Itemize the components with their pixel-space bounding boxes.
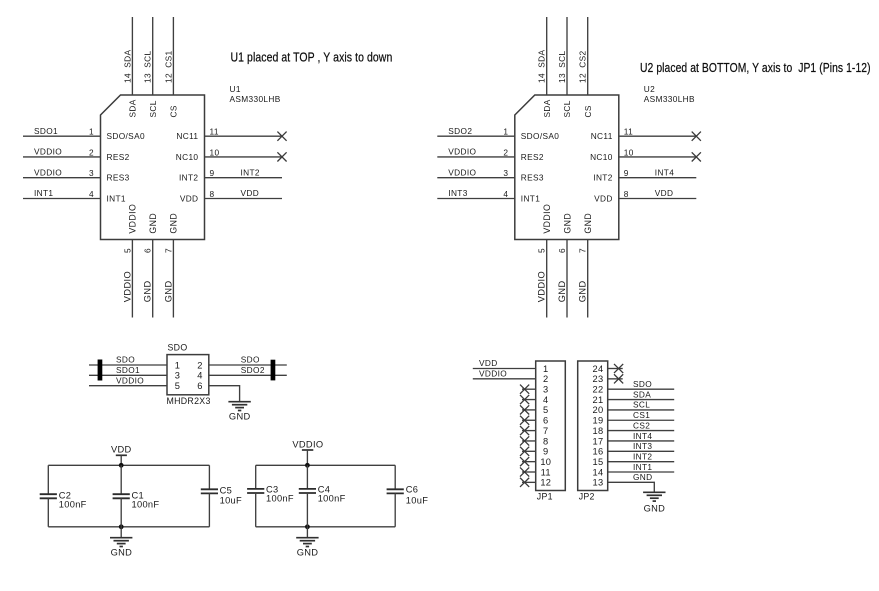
svg-text:3: 3	[543, 385, 548, 395]
svg-text:100nF: 100nF	[266, 494, 294, 504]
svg-text:4: 4	[503, 189, 508, 199]
wire C2 top lead	[47, 465, 49, 494]
svg-text:VDDIO: VDDIO	[479, 368, 507, 378]
svg-text:6: 6	[143, 248, 153, 253]
svg-text:6: 6	[557, 248, 567, 253]
svg-text:10: 10	[624, 147, 634, 157]
junction dot	[305, 524, 310, 529]
wire C6 bottom lead	[394, 493, 396, 526]
capacitor C1	[113, 494, 130, 498]
no-connect X on JP1 pin 11	[520, 467, 529, 476]
svg-text:SCL: SCL	[148, 100, 158, 117]
svg-text:CS2: CS2	[578, 50, 588, 67]
svg-text:SDO1: SDO1	[116, 365, 140, 375]
svg-text:GND: GND	[578, 280, 588, 302]
U1 pin 7 wire	[172, 240, 174, 318]
svg-text:GND: GND	[229, 411, 251, 421]
svg-text:GND: GND	[644, 503, 666, 513]
svg-text:8: 8	[624, 189, 629, 199]
wire C2 bottom lead	[47, 498, 49, 527]
svg-text:VDD: VDD	[594, 193, 613, 203]
MHDR2X3 pin 1 wire	[89, 364, 167, 366]
svg-text:VDDIO: VDDIO	[34, 147, 62, 157]
U2 pin 11 wire	[619, 135, 697, 137]
svg-text:VDDIO: VDDIO	[34, 167, 62, 177]
svg-text:GND: GND	[143, 280, 153, 302]
svg-text:SDA: SDA	[633, 389, 651, 399]
U2 pin 14 wire	[546, 17, 548, 95]
JP2 pin 20 wire	[608, 409, 675, 411]
svg-text:GND: GND	[633, 472, 653, 482]
svg-text:SDA: SDA	[128, 99, 138, 117]
svg-text:U1: U1	[230, 84, 241, 94]
power symbol VDDIO	[302, 450, 313, 465]
connector JP1 body	[536, 361, 566, 491]
svg-text:4: 4	[197, 371, 202, 381]
wire C1 top lead	[120, 465, 122, 494]
wire to ground	[120, 527, 122, 538]
JP1 pin 12 stub wire	[522, 481, 536, 483]
U1 pin 14 wire	[131, 17, 133, 95]
svg-text:GND: GND	[111, 548, 133, 558]
svg-text:U2 placed at BOTTOM, Y axis to: U2 placed at BOTTOM, Y axis to JP1 (Pins…	[640, 61, 871, 75]
svg-text:10: 10	[540, 457, 551, 467]
JP1 pin 2 wire	[473, 378, 536, 380]
MHDR2X3 pin 6 wire	[209, 386, 240, 402]
svg-text:SDA: SDA	[542, 99, 552, 117]
svg-text:SDO2: SDO2	[448, 126, 472, 136]
svg-text:GND: GND	[163, 280, 173, 302]
no-connect X on U1 pin 11	[277, 132, 286, 141]
no-connect X on JP1 pin 6	[520, 416, 529, 425]
svg-text:INT2: INT2	[633, 451, 652, 461]
svg-text:SCL: SCL	[562, 100, 572, 117]
no-connect X on JP1 pin 9	[520, 447, 529, 456]
JP2 pin 15 wire	[608, 461, 675, 463]
svg-text:22: 22	[593, 385, 604, 395]
svg-text:6: 6	[543, 416, 548, 426]
connector JP2 body	[578, 361, 608, 491]
off-page connector bar (right)	[271, 360, 276, 381]
connector J? MHDR2X3 body	[167, 355, 209, 395]
wire GND bottom rail	[256, 526, 396, 528]
U2 pin 9 wire	[619, 177, 697, 179]
wire C4 top lead	[306, 465, 308, 489]
U1 pin 2 wire	[23, 156, 101, 158]
U2 pin 12 wire	[587, 17, 589, 95]
svg-text:3: 3	[503, 168, 508, 178]
U1 pin 5 wire	[131, 240, 133, 318]
svg-text:C5: C5	[220, 486, 232, 496]
U2 pin 10 wire	[619, 156, 697, 158]
junction dot	[119, 463, 124, 468]
svg-text:MHDR2X3: MHDR2X3	[167, 396, 211, 406]
svg-text:U2: U2	[644, 84, 655, 94]
svg-text:21: 21	[593, 395, 604, 405]
MHDR2X3 pin 4 wire	[209, 374, 287, 376]
capacitor C6	[387, 489, 404, 493]
no-connect X on JP1 pin 10	[520, 457, 529, 466]
svg-text:VDD: VDD	[241, 188, 260, 198]
svg-text:INT1: INT1	[521, 193, 540, 203]
svg-text:14: 14	[593, 467, 604, 477]
U2 pin 6 wire	[566, 240, 568, 318]
wire C4 bottom lead	[306, 493, 308, 527]
svg-text:17: 17	[593, 436, 604, 446]
no-connect X on U2 pin 11	[692, 132, 701, 141]
svg-text:SCL: SCL	[143, 50, 153, 67]
svg-text:SDO1: SDO1	[34, 126, 58, 136]
IC U2 body	[515, 95, 619, 240]
junction dot	[305, 463, 310, 468]
no-connect X on JP1 pin 5	[520, 405, 529, 414]
power symbol VDD	[116, 455, 127, 465]
svg-text:20: 20	[593, 405, 604, 415]
no-connect X on U1 pin 10	[277, 152, 286, 161]
svg-text:U1 placed at TOP , Y axis to d: U1 placed at TOP , Y axis to down	[231, 49, 393, 64]
svg-text:13: 13	[143, 73, 153, 83]
svg-text:19: 19	[593, 416, 604, 426]
svg-text:10: 10	[210, 147, 220, 157]
svg-text:16: 16	[593, 447, 604, 457]
svg-text:9: 9	[543, 447, 548, 457]
svg-text:5: 5	[543, 405, 548, 415]
JP1 pin 7 stub wire	[522, 430, 536, 432]
svg-text:SDO: SDO	[633, 379, 652, 389]
capacitor C3	[247, 489, 264, 493]
off-page connector bar (left)	[98, 360, 103, 381]
svg-text:C6: C6	[406, 485, 418, 495]
no-connect X on JP1 pin 4	[520, 395, 529, 404]
svg-text:11: 11	[210, 127, 219, 137]
svg-text:JP1: JP1	[537, 491, 553, 501]
svg-text:CS: CS	[583, 105, 593, 117]
svg-text:VDDIO: VDDIO	[542, 204, 552, 234]
svg-text:8: 8	[543, 436, 548, 446]
svg-text:NC11: NC11	[176, 131, 198, 141]
U2 pin 3 wire	[437, 177, 515, 179]
ground (VDDIO group)	[296, 538, 318, 547]
svg-text:RES2: RES2	[107, 152, 130, 162]
U1 pin 4 wire	[23, 198, 101, 200]
no-connect X on JP1 pin 8	[520, 436, 529, 445]
svg-text:SDO: SDO	[168, 342, 188, 352]
U1 pin 1 wire	[23, 135, 101, 137]
U2 pin 1 wire	[437, 135, 515, 137]
no-connect X on JP2 pin 23	[614, 374, 623, 383]
svg-text:2: 2	[89, 147, 94, 157]
MHDR2X3 pin 3 wire	[89, 374, 167, 376]
svg-text:24: 24	[593, 364, 604, 374]
svg-text:VDDIO: VDDIO	[448, 147, 476, 157]
svg-text:GND: GND	[169, 213, 179, 234]
svg-text:INT3: INT3	[448, 188, 467, 198]
svg-text:14: 14	[122, 73, 132, 83]
svg-text:NC10: NC10	[590, 152, 613, 162]
svg-text:5: 5	[175, 381, 180, 391]
svg-text:1: 1	[543, 364, 548, 374]
capacitor C4	[299, 489, 316, 493]
svg-text:SDO/SA0: SDO/SA0	[521, 131, 559, 141]
JP1 pin 1 wire	[473, 368, 536, 370]
svg-text:RES3: RES3	[521, 173, 544, 183]
JP1 pin 11 stub wire	[522, 471, 536, 473]
svg-text:INT2: INT2	[179, 173, 198, 183]
svg-text:VDDIO: VDDIO	[448, 167, 476, 177]
JP2 pin 14 wire	[608, 471, 675, 473]
svg-text:2: 2	[197, 360, 202, 370]
svg-text:5: 5	[537, 248, 547, 253]
U2 pin 7 wire	[587, 240, 589, 318]
JP2 pin 21 wire	[608, 399, 675, 401]
wire C5 bottom lead	[208, 493, 210, 526]
svg-text:100nF: 100nF	[318, 494, 346, 504]
svg-text:1: 1	[89, 127, 94, 137]
svg-text:7: 7	[543, 426, 548, 436]
JP1 pin 9 stub wire	[522, 450, 536, 452]
JP2 pin 22 wire	[608, 388, 675, 390]
svg-text:5: 5	[122, 248, 132, 253]
svg-text:6: 6	[197, 381, 202, 391]
JP2 pin 13 wire	[608, 482, 655, 492]
svg-text:RES3: RES3	[107, 173, 130, 183]
svg-text:VDDIO: VDDIO	[537, 271, 547, 302]
svg-text:3: 3	[89, 168, 94, 178]
U1 pin 11 wire	[205, 135, 283, 137]
svg-text:INT2: INT2	[241, 167, 260, 177]
wire VDD top rail	[48, 464, 209, 466]
svg-text:SCL: SCL	[557, 50, 567, 67]
U2 pin 2 wire	[437, 156, 515, 158]
wire C6 top lead	[394, 465, 396, 489]
svg-text:2: 2	[543, 374, 548, 384]
JP1 pin 5 stub wire	[522, 409, 536, 411]
svg-text:15: 15	[593, 457, 604, 467]
JP2 pin 24 stub wire	[608, 368, 623, 370]
U1 pin 8 wire	[205, 198, 283, 200]
svg-text:23: 23	[593, 374, 604, 384]
JP2 pin 19 wire	[608, 419, 675, 421]
svg-text:GND: GND	[297, 548, 319, 558]
no-connect X on U2 pin 10	[692, 152, 701, 161]
svg-text:INT3: INT3	[633, 441, 652, 451]
svg-text:SCL: SCL	[633, 400, 650, 410]
svg-text:GND: GND	[557, 280, 567, 302]
U1 pin 12 wire	[172, 17, 174, 95]
svg-text:4: 4	[543, 395, 548, 405]
JP1 pin 3 stub wire	[522, 388, 536, 390]
capacitor C2	[40, 494, 57, 498]
wire GND bottom rail	[48, 526, 209, 528]
svg-text:SDO/SA0: SDO/SA0	[107, 131, 145, 141]
svg-text:CS: CS	[169, 105, 179, 117]
wire to ground	[306, 527, 308, 538]
svg-text:VDD: VDD	[180, 193, 199, 203]
junction dot	[119, 524, 124, 529]
svg-text:11: 11	[624, 127, 633, 137]
svg-text:ASM330LHB: ASM330LHB	[644, 94, 695, 104]
U1 pin 3 wire	[23, 177, 101, 179]
svg-text:GND: GND	[583, 213, 593, 234]
svg-text:NC10: NC10	[176, 152, 199, 162]
svg-text:8: 8	[210, 189, 215, 199]
svg-text:4: 4	[89, 189, 94, 199]
svg-text:NC11: NC11	[591, 131, 613, 141]
svg-text:100nF: 100nF	[132, 499, 160, 509]
svg-text:GND: GND	[562, 213, 572, 234]
U2 pin 5 wire	[546, 240, 548, 318]
svg-text:100nF: 100nF	[59, 499, 87, 509]
no-connect X on JP1 pin 12	[520, 478, 529, 487]
svg-text:13: 13	[557, 73, 567, 83]
svg-text:VDDIO: VDDIO	[122, 271, 132, 302]
JP1 pin 8 stub wire	[522, 440, 536, 442]
svg-text:SDA: SDA	[122, 49, 132, 67]
svg-text:14: 14	[537, 73, 547, 83]
svg-text:1: 1	[503, 127, 508, 137]
U1 pin 10 wire	[205, 156, 283, 158]
capacitor C5	[201, 489, 218, 493]
svg-text:CS1: CS1	[633, 410, 650, 420]
svg-text:SDO: SDO	[241, 355, 260, 365]
svg-text:10uF: 10uF	[406, 495, 428, 505]
svg-text:VDD: VDD	[655, 188, 674, 198]
svg-text:VDDIO: VDDIO	[128, 204, 138, 234]
svg-text:INT4: INT4	[655, 167, 674, 177]
svg-text:INT4: INT4	[633, 431, 652, 441]
svg-text:11: 11	[541, 467, 551, 477]
svg-text:3: 3	[175, 371, 180, 381]
svg-text:7: 7	[163, 248, 173, 253]
svg-text:VDD: VDD	[111, 444, 132, 454]
svg-text:10uF: 10uF	[220, 495, 242, 505]
svg-text:9: 9	[210, 168, 215, 178]
JP2 pin 18 wire	[608, 430, 675, 432]
svg-text:INT2: INT2	[593, 173, 612, 183]
svg-text:GND: GND	[148, 213, 158, 234]
svg-text:INT1: INT1	[34, 188, 53, 198]
wire VDDIO top rail	[256, 464, 396, 466]
wire C3 bottom lead	[255, 493, 257, 527]
U1 pin 9 wire	[205, 177, 283, 179]
no-connect X on JP1 pin 7	[520, 426, 529, 435]
wire C5 top lead	[208, 465, 210, 489]
svg-text:CS1: CS1	[163, 50, 173, 67]
svg-text:18: 18	[593, 426, 604, 436]
JP2 pin 23 stub wire	[608, 378, 623, 380]
IC U1 body	[101, 95, 205, 240]
svg-text:SDO2: SDO2	[241, 365, 265, 375]
JP2 pin 16 wire	[608, 450, 675, 452]
svg-text:ASM330LHB: ASM330LHB	[230, 94, 281, 104]
JP1 pin 10 stub wire	[522, 461, 536, 463]
MHDR2X3 pin 5 wire	[89, 385, 167, 387]
svg-text:INT1: INT1	[107, 193, 126, 203]
no-connect X on JP1 pin 3	[520, 385, 529, 394]
svg-text:SDA: SDA	[537, 49, 547, 67]
no-connect X on JP2 pin 24	[614, 364, 623, 373]
svg-text:VDDIO: VDDIO	[116, 375, 144, 385]
svg-text:9: 9	[624, 168, 629, 178]
svg-text:INT1: INT1	[633, 462, 652, 472]
svg-text:VDD: VDD	[479, 358, 498, 368]
ground (VDD group)	[110, 538, 132, 547]
U1 pin 6 wire	[152, 240, 154, 318]
svg-text:JP2: JP2	[579, 491, 595, 501]
svg-text:7: 7	[578, 248, 588, 253]
JP2 pin 17 wire	[608, 440, 675, 442]
ground (JP2 pin 13)	[643, 492, 665, 501]
wire C3 top lead	[255, 465, 257, 489]
svg-text:CS2: CS2	[633, 420, 650, 430]
JP1 pin 6 stub wire	[522, 419, 536, 421]
JP1 pin 4 stub wire	[522, 399, 536, 401]
MHDR2X3 pin 2 wire	[209, 364, 287, 366]
svg-text:2: 2	[503, 147, 508, 157]
svg-text:RES2: RES2	[521, 152, 544, 162]
ground (MHDR2X3 pin 6)	[228, 402, 250, 411]
svg-text:12: 12	[578, 73, 588, 83]
U2 pin 8 wire	[619, 198, 697, 200]
svg-text:13: 13	[593, 478, 604, 488]
svg-text:12: 12	[540, 478, 551, 488]
U1 pin 13 wire	[152, 17, 154, 95]
svg-text:SDO: SDO	[116, 355, 135, 365]
svg-text:12: 12	[163, 73, 173, 83]
U2 pin 4 wire	[437, 198, 515, 200]
svg-text:VDDIO: VDDIO	[292, 439, 323, 449]
svg-text:1: 1	[175, 360, 180, 370]
U2 pin 13 wire	[566, 17, 568, 95]
wire C1 bottom lead	[120, 498, 122, 527]
